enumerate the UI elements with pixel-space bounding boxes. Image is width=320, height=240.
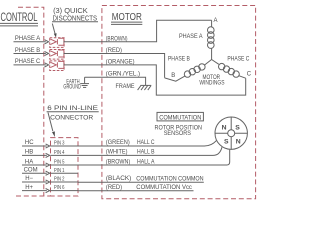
arrowhead HB [46, 153, 50, 157]
wire orange: QD to motor terminal C [64, 65, 246, 95]
svg-text:HALL B: HALL B [137, 149, 155, 156]
svg-text:MOTOR: MOTOR [112, 11, 142, 23]
svg-text:CONTROL: CONTROL [1, 12, 38, 24]
rotor cross vertical [230, 117, 232, 149]
svg-text:DISCONNECTS: DISCONNECTS [53, 15, 98, 22]
svg-text:PHASE C: PHASE C [227, 56, 249, 63]
svg-text:PHASE C: PHASE C [15, 58, 41, 65]
svg-text:B: B [171, 73, 175, 79]
COMMUTATION box [157, 112, 203, 121]
wire commutation vcc [78, 190, 194, 192]
svg-text:COMMUTATION COMMON: COMMUTATION COMMON [136, 176, 203, 183]
connector pointer arrow [48, 113, 55, 138]
svg-text:A: A [214, 18, 218, 24]
svg-text:(BLACK): (BLACK) [106, 175, 131, 182]
quick disconnect QD2 [50, 50, 64, 60]
wire COM [22, 172, 47, 174]
control box [18, 7, 44, 196]
svg-text:PHASE A: PHASE A [179, 33, 203, 40]
6 pin connector box [51, 138, 79, 196]
wire red: QD to motor terminal B [64, 54, 165, 78]
svg-text:FRAME: FRAME [116, 83, 135, 90]
wire commutation common [78, 181, 204, 183]
CONTROL double underline [0, 22, 38, 24]
svg-text:PHASE A: PHASE A [15, 35, 41, 42]
arrowhead phase A [45, 40, 49, 44]
wire pin1 inside box [51, 172, 79, 174]
wire hall C [78, 141, 216, 146]
control box bottom edge [16, 195, 51, 197]
arrowhead HC [46, 144, 50, 148]
svg-text:CONNECTOR: CONNECTOR [50, 114, 93, 121]
quick disconnect QD3 [50, 61, 64, 71]
winding coil B [165, 60, 212, 82]
svg-text:HALL C: HALL C [137, 139, 155, 146]
wire pin6 inside box [51, 190, 79, 192]
svg-text:(BROWN): (BROWN) [106, 35, 128, 42]
svg-text:COMMUTATION Vcc: COMMUTATION Vcc [136, 184, 192, 191]
wire pin4 inside box [51, 154, 79, 156]
arrowhead COM [46, 171, 50, 175]
wire phase A (control side) [14, 41, 46, 43]
svg-text:(WHITE): (WHITE) [106, 149, 128, 156]
wire HC [22, 145, 47, 147]
svg-text:WINDINGS: WINDINGS [199, 80, 224, 86]
svg-text:(GRN./YEL.): (GRN./YEL.) [106, 71, 140, 78]
svg-text:N: N [222, 124, 227, 131]
DISCONNECTS underline [52, 21, 98, 23]
wire pin3 inside box [51, 145, 79, 147]
MOTOR double underline [111, 21, 142, 23]
svg-text:(GREEN): (GREEN) [106, 139, 130, 146]
svg-text:HB: HB [25, 150, 33, 156]
svg-text:HC: HC [25, 140, 34, 146]
motor box [102, 6, 256, 199]
arrowhead HA [46, 163, 50, 167]
svg-text:PHASE B: PHASE B [168, 56, 190, 63]
quick disconnects pointer arrow [52, 24, 56, 38]
svg-text:S: S [224, 139, 229, 146]
arrowhead phase C [45, 63, 49, 67]
rotor cross horizontal [215, 132, 247, 134]
wire pin5 inside box [51, 164, 79, 166]
rotor hub [228, 130, 235, 137]
svg-text:GROUND: GROUND [63, 85, 81, 91]
svg-text:C: C [247, 72, 252, 78]
wire H+ [22, 190, 47, 192]
wire H- [22, 181, 47, 183]
svg-text:PHASE B: PHASE B [15, 47, 41, 54]
rotor position sensor circle [215, 117, 247, 149]
svg-text:SENSORS: SENSORS [164, 130, 191, 137]
wire brown: QD to motor terminal A [64, 20, 212, 42]
arrowhead H- [46, 180, 50, 184]
svg-text:(RED): (RED) [106, 184, 122, 191]
earth ground symbol [80, 77, 89, 87]
svg-text:COM: COM [24, 168, 38, 174]
wire HA [22, 164, 47, 166]
wire HB [22, 154, 47, 156]
svg-text:(3) QUICK: (3) QUICK [53, 8, 88, 15]
svg-text:COMMUTATION: COMMUTATION [159, 114, 201, 121]
wire pin2 inside box [51, 181, 79, 183]
svg-text:S: S [235, 124, 240, 131]
quick disconnect QD1 [50, 38, 64, 48]
svg-text:(ORANGE): (ORANGE) [106, 58, 135, 65]
svg-text:6 PIN IN-LINE: 6 PIN IN-LINE [47, 105, 98, 112]
winding coil A [208, 20, 215, 59]
arrowhead phase B [45, 51, 49, 55]
wire hall B [78, 147, 222, 155]
wire green/yellow: earth to frame [85, 77, 146, 85]
frame chassis ground symbol [138, 85, 152, 90]
wire phase B (control side) [14, 53, 46, 55]
svg-text:(RED): (RED) [106, 47, 122, 54]
winding coil C [212, 60, 246, 79]
arrowhead H+ [46, 189, 50, 193]
wire hall A [78, 150, 230, 165]
svg-text:H−: H− [25, 176, 33, 182]
svg-text:N: N [236, 138, 241, 145]
wire phase C (control side) [14, 64, 46, 66]
